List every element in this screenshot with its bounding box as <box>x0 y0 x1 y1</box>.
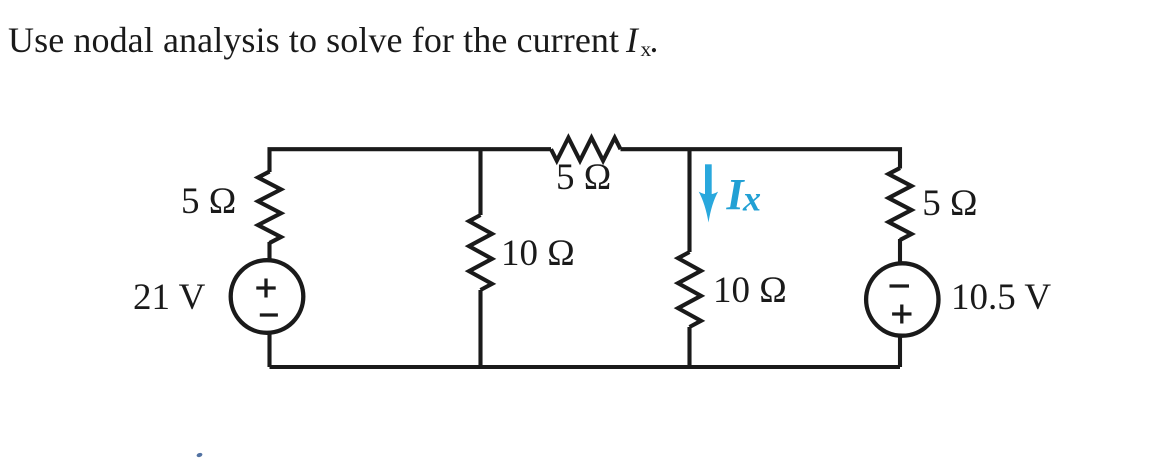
voltage source V2 10.5 V (circle symbol) <box>866 263 938 335</box>
wire: R4 down to bottom rail <box>687 327 691 367</box>
svg-text:10 Ω: 10 Ω <box>501 233 575 274</box>
V1 plus sign <box>256 279 275 298</box>
wire: node A top-left corner, left stub up to top rail and run to R2 <box>270 149 552 172</box>
resistor R5 5 ohm (right vertical zigzag) <box>889 168 912 240</box>
wire: R5 to V2 minus terminal <box>898 239 902 263</box>
svg-text:5 Ω: 5 Ω <box>556 157 611 198</box>
voltage source V1 21 V (circle symbol) <box>231 260 304 333</box>
wire: R3 down to bottom rail <box>478 290 482 367</box>
V2 plus sign <box>892 305 911 324</box>
wire: bottom rail (ground net) <box>270 365 901 369</box>
svg-text:x: x <box>742 179 761 219</box>
svg-text:5 Ω: 5 Ω <box>181 181 236 222</box>
svg-text:10 Ω: 10 Ω <box>713 270 787 311</box>
svg-text:I: I <box>625 20 640 60</box>
resistor R1 5 ohm (left vertical zigzag) <box>258 172 281 244</box>
svg-text:21 V: 21 V <box>133 277 206 318</box>
wire: top rail junction down to R3 <box>478 149 482 215</box>
resistor R2 5 ohm (top horizontal zigzag) <box>551 138 621 161</box>
wire: R1 to V1 plus terminal <box>267 242 271 259</box>
V1 minus sign <box>260 313 278 316</box>
stray mark (small blue smudge bottom-left) <box>196 452 203 458</box>
current arrow Ix (cyan, pointing down) <box>699 164 718 222</box>
V2 minus sign <box>890 284 910 287</box>
wire: node B junction down to R4 <box>687 149 691 252</box>
resistor R3 10 ohm (middle-left vertical zigzag) <box>469 215 492 290</box>
svg-text:5 Ω: 5 Ω <box>922 183 977 224</box>
wire: V2 plus terminal down to bottom rail <box>898 336 902 367</box>
svg-text:Use nodal analysis to solve fo: Use nodal analysis to solve for the curr… <box>8 20 619 60</box>
wire: top rail from R2 to node B top-right corner, stub down <box>621 149 901 168</box>
wire: V1 minus terminal down to bottom rail <box>267 333 271 367</box>
svg-text:10.5 V: 10.5 V <box>951 277 1051 318</box>
svg-text:.: . <box>650 20 659 60</box>
resistor R4 10 ohm (middle-right vertical zigzag) <box>678 252 701 327</box>
